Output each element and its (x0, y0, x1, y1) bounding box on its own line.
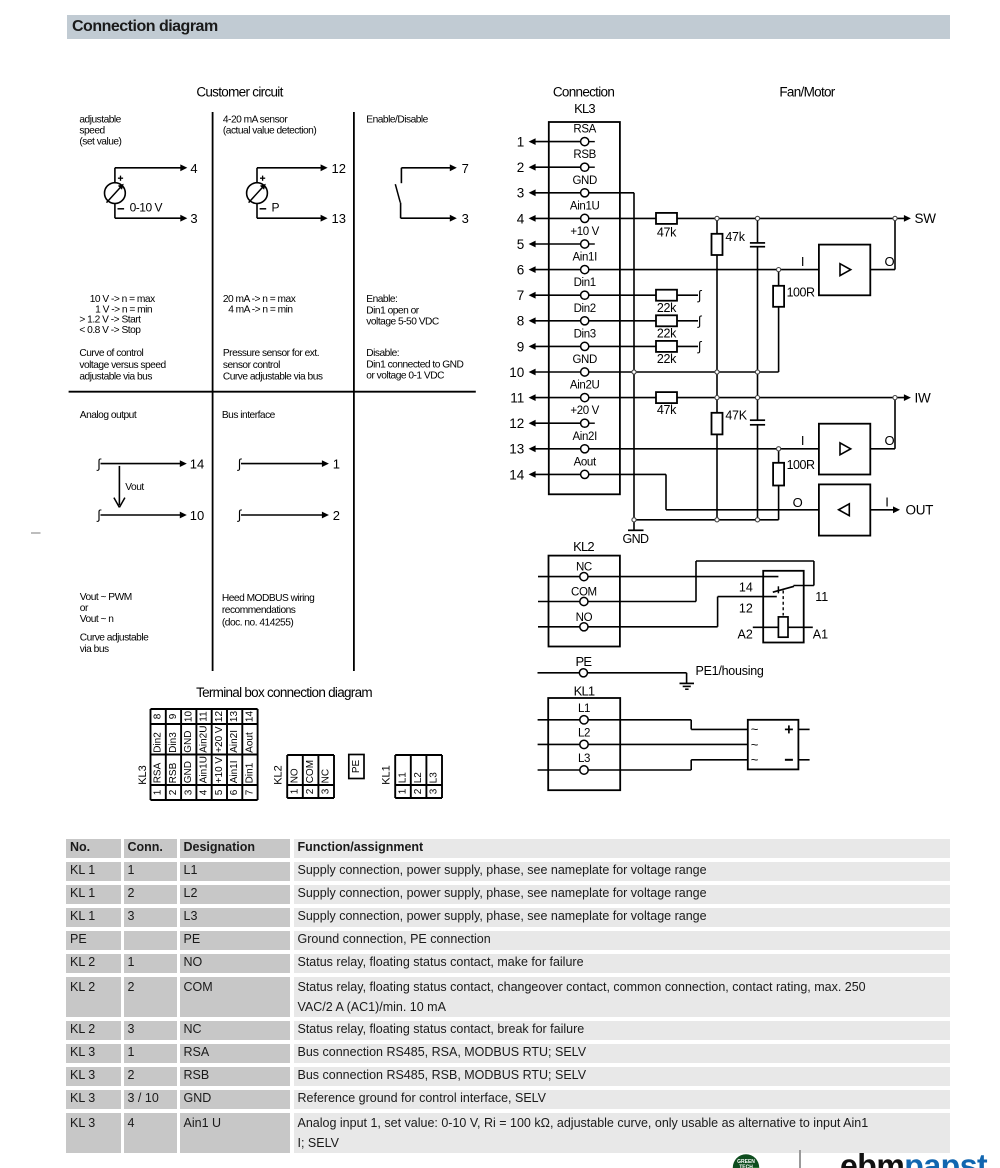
svg-text:TECH: TECH (739, 1165, 753, 1168)
svg-text:ebmpapst: ebmpapst (840, 1148, 988, 1168)
